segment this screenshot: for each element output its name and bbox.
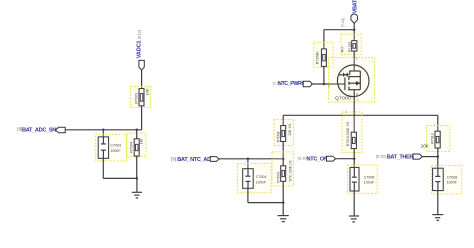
- svg-text:BAT_NTC_AD: BAT_NTC_AD: [177, 157, 211, 163]
- svg-text:22K 1%: 22K 1%: [288, 124, 292, 136]
- wire rail to R7008: [282, 115, 284, 125]
- wire port to node: [422, 156, 438, 158]
- wire C7004 down: [247, 188, 249, 202]
- svg-text:4K7: 4K7: [341, 46, 345, 52]
- port right (pointing right): [413, 154, 422, 159]
- node junction C7003: [102, 129, 105, 132]
- svg-text:R7008: R7008: [276, 132, 280, 143]
- ground: [432, 215, 443, 221]
- svg-text:R7004: R7004: [129, 142, 133, 153]
- resistor R7013: [421, 131, 440, 148]
- junction: [353, 157, 356, 160]
- wire power to rail: [353, 24, 355, 41]
- power rail: [324, 29, 354, 31]
- svg-text:100nF: 100nF: [256, 180, 267, 184]
- wire rail corner to R7013: [437, 115, 439, 131]
- wire R7004 down: [136, 156, 138, 178]
- svg-text:C7005: C7005: [364, 175, 375, 179]
- svg-text:BAT_ADC_SNS: BAT_ADC_SNS: [22, 127, 60, 133]
- node label VADC1 [8,12] (vertical): [137, 30, 143, 58]
- page refs (vertical): [341, 18, 345, 27]
- svg-text:VBAT: VBAT: [352, 0, 358, 13]
- wire port to R7003: [141, 70, 143, 88]
- yellow box C7003: [95, 134, 126, 161]
- ground: [278, 203, 289, 222]
- yellow box C7005: [348, 165, 378, 194]
- power symbol: [351, 14, 358, 24]
- svg-text:C7003: C7003: [110, 143, 121, 147]
- yellow box R7003: [131, 87, 151, 108]
- yellow box Q7000: [329, 58, 375, 103]
- svg-text:NTC 100K 1%: NTC 100K 1%: [289, 160, 293, 181]
- resistor R7010: [346, 122, 357, 149]
- wire R7003 to row: [141, 106, 143, 130]
- wire mid node to R7009: [282, 159, 284, 166]
- wire rail to R7010: [353, 115, 355, 132]
- yellow box R7010: [342, 112, 362, 153]
- svg-text:100nF: 100nF: [364, 181, 375, 185]
- wire rail to pull-up: [323, 30, 325, 49]
- svg-text:20K: 20K: [421, 144, 429, 149]
- resistor R7159 4K7 (source series): [341, 41, 357, 53]
- svg-text:R7159: R7159: [348, 42, 352, 52]
- wire to C7003: [102, 130, 104, 137]
- gate wire: [312, 83, 345, 85]
- resistor R7158 (gate pull-up): [316, 49, 327, 67]
- junction drain: [353, 114, 356, 117]
- junction: [136, 177, 139, 180]
- wire mid row: [219, 158, 283, 160]
- yellow box C7008: [432, 166, 462, 195]
- ground: [132, 178, 142, 198]
- yellow box R7013: [427, 126, 450, 152]
- yellow box R7159: [341, 34, 361, 54]
- node junction R7004: [135, 129, 138, 132]
- capacitor C7005: [350, 167, 375, 191]
- svg-text:1M: 1M: [140, 139, 144, 144]
- mid-left net label: [171, 156, 211, 163]
- svg-text:[9]: [9]: [171, 156, 176, 161]
- capacitor C7003 100nF: [98, 137, 121, 158]
- center net label: [298, 155, 328, 162]
- svg-text:C7004: C7004: [256, 175, 267, 179]
- resistor R7003: [134, 88, 149, 106]
- wire R7010 to node: [353, 149, 355, 168]
- svg-text:R7158K: R7158K: [316, 51, 320, 65]
- bottom rail: [248, 202, 283, 204]
- port center (pointing right): [326, 156, 335, 161]
- svg-text:NTC_ON: NTC_ON: [307, 156, 328, 162]
- yellow box R7158: [314, 42, 333, 67]
- drain rail: [283, 114, 438, 116]
- svg-text:10K: 10K: [146, 88, 150, 95]
- junction mid node: [282, 158, 285, 161]
- ground: [349, 216, 359, 222]
- svg-text:S: S: [356, 64, 358, 68]
- port P2 (pointing left): [55, 127, 65, 132]
- yellow box R7008: [274, 120, 294, 146]
- power net label VBAT (vertical): [352, 0, 358, 13]
- wire port to node: [336, 158, 355, 160]
- right floating net label: [376, 153, 418, 160]
- svg-text:C7008: C7008: [447, 175, 458, 179]
- junction: [282, 201, 285, 204]
- port gate (pointing right): [303, 81, 312, 86]
- wire to R7004: [136, 130, 138, 139]
- svg-text:Q7000: Q7000: [335, 96, 351, 102]
- capacitor C7008: [433, 168, 458, 190]
- wire C7005 to ground: [353, 191, 355, 216]
- port P1 (top, pointing down): [139, 60, 144, 70]
- capacitor C7004: [243, 169, 267, 189]
- port mid-left (pointing right): [210, 157, 219, 162]
- svg-text:R7009: R7009: [276, 172, 280, 183]
- wire R7009 down: [282, 181, 284, 202]
- wire R7008 to mid node: [282, 142, 284, 159]
- svg-text:R7013: R7013: [430, 133, 434, 144]
- svg-text:100nF: 100nF: [110, 149, 121, 153]
- wire row: [65, 129, 141, 131]
- drain wire down: [353, 90, 355, 116]
- net label left: [17, 126, 60, 133]
- svg-text:R7003: R7003: [134, 93, 138, 104]
- resistor R7004: [129, 139, 143, 156]
- yellow box R7004: [127, 133, 146, 156]
- junction: [353, 28, 356, 31]
- wire C7008 to ground: [437, 191, 439, 215]
- wire bottom rail: [103, 177, 137, 179]
- wire to FET source: [353, 51, 355, 71]
- svg-text:R7010 220K 1%: R7010 220K 1%: [346, 122, 350, 146]
- resistor R7008: [276, 124, 292, 143]
- wire to C7004: [247, 159, 249, 169]
- junction C7004: [247, 158, 250, 161]
- yellow box C7004: [237, 164, 271, 193]
- resistor R7009 (NTC): [276, 160, 292, 182]
- junction gate: [323, 83, 326, 86]
- wire C7003 down: [102, 158, 104, 178]
- yellow box R7009: [272, 152, 294, 186]
- wire R7013 to node: [437, 148, 439, 168]
- svg-text:100nF: 100nF: [447, 181, 458, 185]
- svg-text:[7,12]: [7,12]: [341, 18, 345, 27]
- svg-text:[9,10]: [9,10]: [376, 153, 386, 158]
- wire pull-up to gate: [323, 66, 325, 84]
- gate net label: [273, 81, 310, 88]
- transistor Q7000 (P-MOSFET): [328, 56, 369, 101]
- junction: [437, 155, 440, 158]
